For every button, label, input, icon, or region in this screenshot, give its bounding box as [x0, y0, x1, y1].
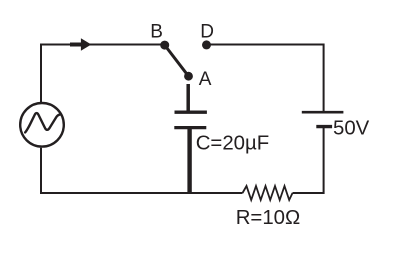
svg-text:50V: 50V [333, 118, 370, 140]
svg-text:C=20µF: C=20µF [196, 132, 270, 154]
svg-text:R=10Ω: R=10Ω [236, 207, 301, 229]
svg-text:A: A [199, 69, 212, 90]
svg-text:B: B [150, 22, 163, 43]
svg-text:D: D [200, 22, 214, 43]
